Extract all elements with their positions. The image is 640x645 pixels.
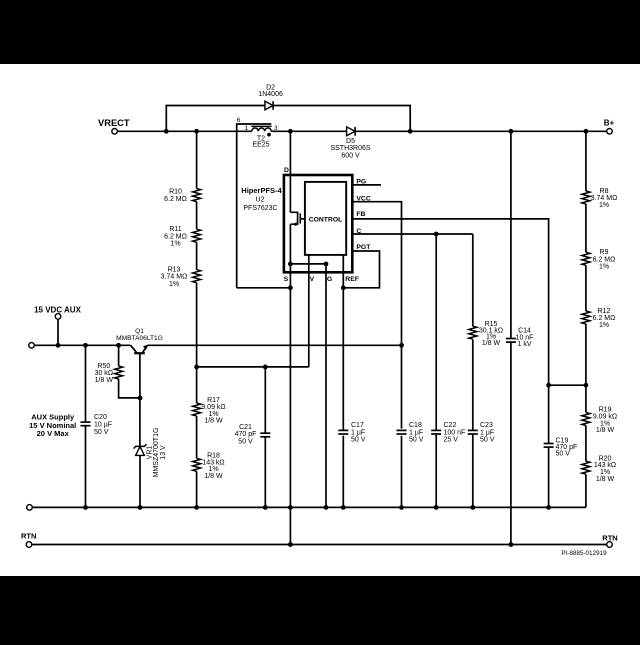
junction G internal xyxy=(324,262,329,267)
capacitor C23 xyxy=(468,430,478,507)
resistor R12 xyxy=(582,311,590,324)
label R12 6.2 MOhm 1% xyxy=(593,308,616,329)
resistor R13 xyxy=(193,270,201,283)
svg-text:25 V: 25 V xyxy=(444,437,459,444)
junction rail-D2 branch xyxy=(164,129,169,134)
capacitor C20 xyxy=(81,345,91,507)
pin label C xyxy=(356,228,361,235)
label PI-8885-012919 xyxy=(561,550,607,557)
label U2 xyxy=(256,197,265,204)
svg-text:3.74 MΩ: 3.74 MΩ xyxy=(161,274,188,281)
wire R12-R19 xyxy=(585,324,587,413)
label C21 470 pF 50 V xyxy=(235,424,257,445)
wire R9-R12 xyxy=(585,265,587,311)
wire aux rail xyxy=(34,344,130,346)
svg-text:R10: R10 xyxy=(169,189,182,196)
transistor Q1 MMBTA06LT1G xyxy=(131,345,148,354)
U2 CONTROL block xyxy=(305,182,346,255)
node VRECT terminal xyxy=(98,118,130,134)
junction FB node xyxy=(546,383,551,388)
svg-text:R12: R12 xyxy=(598,308,611,315)
node RTN right terminal xyxy=(602,533,617,547)
wire VCC line xyxy=(352,202,401,429)
wire main rail VRECT to T2 xyxy=(117,130,251,132)
svg-text:G: G xyxy=(327,276,332,283)
label R50 30 kOhm 1/8 W xyxy=(95,363,114,384)
svg-text:Q1: Q1 xyxy=(135,328,144,335)
svg-text:MMBTA06LT1G: MMBTA06LT1G xyxy=(116,335,163,342)
label R9 6.2 MOhm 1% xyxy=(593,249,616,270)
wire S to T2 pin6 xyxy=(237,287,291,289)
junction ground rail C20 xyxy=(83,505,88,510)
svg-text:6.2 MΩ: 6.2 MΩ xyxy=(593,315,616,322)
junction REF-PGT node xyxy=(341,285,346,290)
junction rail-R10 column xyxy=(194,129,199,134)
resistor R18 xyxy=(193,458,201,471)
label R20 143 kOhm 1% 1/8 W xyxy=(594,455,616,482)
label R15 30.1 kOhm 1% 1/8 W xyxy=(479,321,503,347)
wire PGT line xyxy=(343,251,379,288)
transformer T2 polarity dot xyxy=(267,133,271,137)
junction R50-base xyxy=(138,396,143,401)
svg-text:1%: 1% xyxy=(599,202,609,209)
label C22 100 nF 25 V xyxy=(444,422,466,443)
node ground rail terminal xyxy=(27,505,33,511)
svg-text:50 V: 50 V xyxy=(351,437,366,444)
capacitor C22 xyxy=(431,234,441,507)
svg-text:10 µF: 10 µF xyxy=(94,421,112,428)
node B+ terminal xyxy=(604,118,615,134)
svg-text:PGT: PGT xyxy=(356,244,371,251)
wire R10-R11 xyxy=(196,202,198,230)
label C19 470 pF 50 V xyxy=(556,438,578,458)
wire REF column xyxy=(342,255,344,429)
svg-text:C18: C18 xyxy=(409,422,422,429)
wire chain top xyxy=(585,131,587,191)
svg-text:S: S xyxy=(284,276,289,283)
svg-text:C17: C17 xyxy=(351,422,364,429)
svg-text:1%: 1% xyxy=(599,322,609,329)
svg-text:3: 3 xyxy=(274,125,278,132)
capacitor C18 xyxy=(397,430,407,434)
svg-text:470 pF: 470 pF xyxy=(235,431,257,438)
svg-text:EE25: EE25 xyxy=(252,141,269,148)
pin number 1 xyxy=(244,125,248,132)
wire main rail T2 to B+ xyxy=(271,130,607,132)
pin label VCC xyxy=(356,196,370,203)
wire VCC column lower xyxy=(401,436,403,508)
svg-text:6.2 MΩ: 6.2 MΩ xyxy=(164,196,187,203)
junction ground rail R18 xyxy=(194,505,199,510)
wire ground rail xyxy=(32,506,586,508)
node 15 VDC AUX terminal xyxy=(34,305,81,319)
svg-text:1 µF: 1 µF xyxy=(409,429,423,436)
resistor R9 xyxy=(582,252,590,265)
svg-text:30 kΩ: 30 kΩ xyxy=(95,370,113,377)
pin label V xyxy=(310,276,315,283)
resistor R50 xyxy=(115,345,140,398)
svg-text:50 V: 50 V xyxy=(556,451,571,458)
svg-text:1/8 W: 1/8 W xyxy=(95,377,114,384)
label HiperPFS-4 xyxy=(241,186,282,195)
junction emitter-VCC xyxy=(399,343,404,348)
wire T2 pin6 bracket xyxy=(237,124,272,288)
svg-text:1%: 1% xyxy=(599,264,609,271)
svg-text:20 V Max: 20 V Max xyxy=(37,429,70,438)
svg-text:600 V: 600 V xyxy=(341,152,360,159)
svg-text:V: V xyxy=(310,276,315,283)
svg-text:1/8 W: 1/8 W xyxy=(204,418,223,425)
svg-text:1 µF: 1 µF xyxy=(351,429,365,436)
junction C21 tap xyxy=(263,365,268,370)
svg-text:15 VDC AUX: 15 VDC AUX xyxy=(34,305,81,314)
wire R11-R13 xyxy=(196,242,198,270)
wire RTN rail xyxy=(32,544,607,546)
svg-text:1 kV: 1 kV xyxy=(517,341,531,348)
svg-text:VRECT: VRECT xyxy=(98,118,130,128)
wire G column xyxy=(325,264,327,508)
junction ground rail C17 xyxy=(341,505,346,510)
junction chain FB node xyxy=(584,383,589,388)
wire U2 internal S-G tie xyxy=(290,263,326,265)
pin label PG xyxy=(356,179,366,186)
svg-text:PFS7623C: PFS7623C xyxy=(243,205,277,212)
svg-text:1: 1 xyxy=(244,125,248,132)
svg-text:50 V: 50 V xyxy=(238,438,253,445)
pin label REF xyxy=(345,276,359,283)
junction ground rail C18 xyxy=(399,505,404,510)
label C20 10 uF 50 V xyxy=(94,414,112,436)
svg-text:1%: 1% xyxy=(169,281,179,288)
svg-text:SSTH3R06S: SSTH3R06S xyxy=(330,145,370,152)
pin label PGT xyxy=(356,244,371,251)
svg-text:6.2 MΩ: 6.2 MΩ xyxy=(593,256,616,263)
wire FB to chain xyxy=(549,384,586,386)
wire FB line xyxy=(352,219,548,385)
svg-text:50 V: 50 V xyxy=(480,437,495,444)
resistor R17 xyxy=(193,403,201,416)
transformer T2 winding xyxy=(251,126,271,131)
junction aux-C20 xyxy=(83,343,88,348)
wire Q1 base xyxy=(139,354,141,446)
svg-text:100 nF: 100 nF xyxy=(444,429,466,436)
label R18 143 kOhm 1% 1/8 W xyxy=(202,453,224,480)
wire divider column top xyxy=(196,131,198,188)
resistor R11 xyxy=(193,229,201,242)
pin label S xyxy=(284,276,289,283)
svg-text:C21: C21 xyxy=(239,424,252,431)
wire R20 to ground rail xyxy=(585,474,587,507)
junction ground rail S col xyxy=(288,505,293,510)
wire C line xyxy=(352,233,473,235)
svg-text:R8: R8 xyxy=(600,188,609,195)
pin label FB xyxy=(356,211,365,218)
wire U2 drain column xyxy=(289,131,291,212)
wire emitter to VCC xyxy=(148,344,402,346)
svg-text:6.2 MΩ: 6.2 MΩ xyxy=(164,233,187,240)
label R11 6.2 MOhm 1% xyxy=(164,226,187,247)
label VR1 MMSZ4700T1G 13 V xyxy=(147,428,167,478)
junction divider node xyxy=(194,365,199,370)
transistor M1 (U2 internal MOSFET) xyxy=(290,212,305,226)
junction ground rail G xyxy=(324,505,329,510)
pin number 3 xyxy=(274,125,278,132)
svg-text:1/8 W: 1/8 W xyxy=(204,473,223,480)
resistor R19 xyxy=(582,413,590,426)
svg-text:3.74 MΩ: 3.74 MΩ xyxy=(591,195,618,202)
wire PG stub xyxy=(352,184,381,186)
wire R18 to ground rail xyxy=(196,471,198,507)
wire D2 branch xyxy=(166,106,410,132)
label AUX Supply 15 V Nominal 20 V Max xyxy=(29,412,76,438)
svg-text:C22: C22 xyxy=(444,422,457,429)
svg-text:FB: FB xyxy=(356,211,365,218)
svg-text:1/8 W: 1/8 W xyxy=(596,427,615,434)
label D2 1N4006 xyxy=(258,84,283,98)
svg-text:1N4006: 1N4006 xyxy=(258,91,283,98)
resistor R10 xyxy=(193,189,201,202)
junction aux-R50 xyxy=(116,343,121,348)
svg-text:50 V: 50 V xyxy=(409,437,424,444)
svg-text:HiperPFS-4: HiperPFS-4 xyxy=(241,186,282,195)
junction ground rail VR1 xyxy=(138,505,143,510)
wire R8-R9 xyxy=(585,204,587,252)
junction ground rail C21 xyxy=(263,505,268,510)
junction rail-R8 chain xyxy=(584,129,589,134)
junction ground rail C19 xyxy=(546,505,551,510)
label PFS7623C xyxy=(243,205,277,212)
capacitor C21 xyxy=(260,367,270,508)
svg-text:RTN: RTN xyxy=(21,531,36,540)
label R19 9.09 kOhm 1% 1/8 W xyxy=(593,407,617,434)
svg-text:R9: R9 xyxy=(600,249,609,256)
junction rail-D2 return xyxy=(408,129,413,134)
svg-text:6: 6 xyxy=(237,117,241,124)
svg-text:C: C xyxy=(356,228,361,235)
wire R17 link xyxy=(196,367,198,403)
svg-text:VCC: VCC xyxy=(356,196,370,203)
junction RTN-C14 xyxy=(509,542,514,547)
svg-text:REF: REF xyxy=(345,276,359,283)
label C14 10 nF 1 kV xyxy=(516,328,534,348)
svg-text:CONTROL: CONTROL xyxy=(309,216,343,223)
resistor R8 xyxy=(582,191,590,204)
node AUX input terminal xyxy=(29,343,35,349)
wire 15VDC drop xyxy=(57,319,59,345)
junction S internal xyxy=(288,262,293,267)
wire R19-R20 xyxy=(585,426,587,462)
label R13 3.74 MOhm 1% xyxy=(161,267,188,288)
label D5 SSTH3R06S 600 V xyxy=(330,138,370,159)
junction RTN-S column xyxy=(288,542,293,547)
wire R17-R18 xyxy=(196,416,198,458)
junction ground rail C22 xyxy=(434,505,439,510)
svg-text:PI-8885-012919: PI-8885-012919 xyxy=(561,550,607,557)
svg-text:PG: PG xyxy=(356,179,366,186)
svg-text:RTN: RTN xyxy=(602,533,617,542)
wire R13 to divider node xyxy=(196,283,198,367)
diode D5 xyxy=(347,127,356,136)
zener diode VR1 xyxy=(134,444,147,507)
label R8 3.74 MOhm 1% xyxy=(591,188,618,209)
label C17 1 uF 50 V xyxy=(351,422,366,443)
wire S column xyxy=(289,224,291,544)
junction C-C22 xyxy=(434,232,439,237)
resistor R15 xyxy=(469,234,477,430)
junction ground rail C23 xyxy=(470,505,475,510)
label R17 9.09 kOhm 1% 1/8 W xyxy=(201,397,225,424)
svg-text:1/8 W: 1/8 W xyxy=(596,476,615,483)
svg-text:C20: C20 xyxy=(94,414,107,421)
junction S pin node xyxy=(288,285,293,290)
capacitor C17 xyxy=(338,429,348,434)
label R10 6.2 MOhm xyxy=(164,189,187,203)
resistor R20 xyxy=(582,461,590,474)
svg-text:13 V: 13 V xyxy=(160,445,167,460)
wire REF column lower xyxy=(342,436,344,508)
node RTN left terminal xyxy=(21,531,36,547)
svg-text:B+: B+ xyxy=(604,118,615,127)
svg-text:R11: R11 xyxy=(169,226,181,233)
svg-text:U2: U2 xyxy=(256,197,265,204)
label T2 EE25 xyxy=(252,136,269,149)
pin number 6 xyxy=(237,117,241,124)
label Q1 MMBTA06LT1G xyxy=(116,328,163,342)
svg-text:1%: 1% xyxy=(170,241,180,248)
capacitor C14 xyxy=(506,131,516,544)
svg-text:D: D xyxy=(284,167,289,174)
wire V column xyxy=(308,255,310,367)
diode D2 xyxy=(265,101,273,110)
svg-text:R13: R13 xyxy=(168,267,181,274)
svg-text:50 V: 50 V xyxy=(94,429,109,436)
label C23 1 uF 50 V xyxy=(480,422,495,443)
pin label G xyxy=(327,276,332,283)
pin label D xyxy=(284,167,289,174)
svg-text:1/8 W: 1/8 W xyxy=(482,340,501,347)
capacitor C19 xyxy=(544,385,554,507)
label C18 1 uF 50 V xyxy=(409,422,424,443)
wire divider node to V pin xyxy=(197,366,309,368)
svg-text:1 µF: 1 µF xyxy=(480,429,494,436)
op-amp U2 outline (HiperPFS-4 PFS7623C) xyxy=(284,175,352,272)
junction rail-C14 column xyxy=(509,129,514,134)
junction aux-15VDC xyxy=(56,343,61,348)
junction rail-U2 drain xyxy=(288,129,293,134)
svg-text:R50: R50 xyxy=(97,363,110,370)
svg-text:C23: C23 xyxy=(480,422,493,429)
